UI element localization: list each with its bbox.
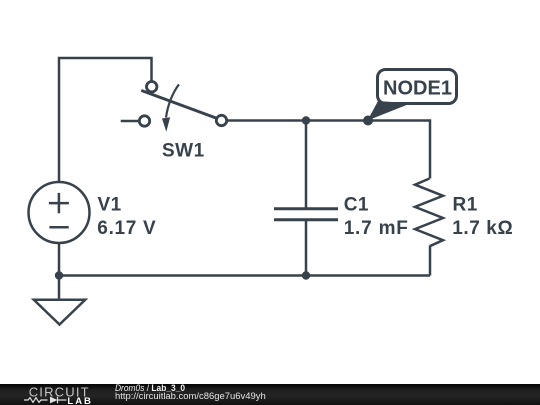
C1 bottom plate (274, 218, 338, 221)
CircuitLab logo (0, 384, 110, 405)
wire switch pole stub (121, 120, 139, 123)
svg-text:NODE1: NODE1 (383, 78, 452, 100)
svg-text:LAB: LAB (67, 396, 93, 405)
SW1 arrowhead (162, 117, 170, 132)
footer bar (0, 384, 540, 405)
svg-text:C1: C1 (344, 195, 369, 216)
voltage source V1 (29, 182, 90, 243)
svg-text:1.7 mF: 1.7 mF (344, 218, 409, 239)
svg-text:V1: V1 (98, 195, 122, 216)
wire top-left loop from V1 to switch (59, 58, 152, 182)
SW1 actuation arrow arc (166, 84, 179, 117)
svg-text:R1: R1 (453, 195, 478, 216)
wire resistor bottom (429, 246, 432, 276)
wire bottom rail (59, 274, 430, 277)
SW1 throw terminal (closed, top) (147, 82, 157, 92)
node NODE1 callout balloon (368, 70, 457, 121)
wire capacitor top (305, 121, 308, 209)
wire ground stem (58, 276, 61, 300)
ground (34, 300, 85, 325)
junction dot capacitor bottom (302, 271, 310, 279)
V1 plus sign (49, 193, 69, 213)
SW1 open pole terminal (left) (139, 116, 149, 126)
junction dot capacitor top (302, 116, 310, 124)
switch SW1 (143, 84, 217, 118)
SW1 common terminal (right) (216, 115, 226, 125)
wire V1 bottom (58, 244, 61, 276)
svg-text:6.17 V: 6.17 V (97, 218, 156, 239)
voltage source V1 body circle (29, 182, 90, 243)
V1 minus sign (49, 226, 68, 229)
SW1 lever (143, 91, 217, 118)
svg-text:SW1: SW1 (162, 140, 205, 161)
junction dot V1 bottom (55, 271, 63, 279)
capacitor C1 (274, 209, 338, 220)
wire capacitor bottom (305, 221, 308, 276)
node NODE1 junction dot (363, 116, 373, 126)
wire top rail from switch to resistor corner (227, 121, 431, 179)
svg-text:1.7 kΩ: 1.7 kΩ (452, 218, 513, 239)
resistor R1 (415, 179, 443, 247)
C1 top plate (274, 207, 338, 210)
